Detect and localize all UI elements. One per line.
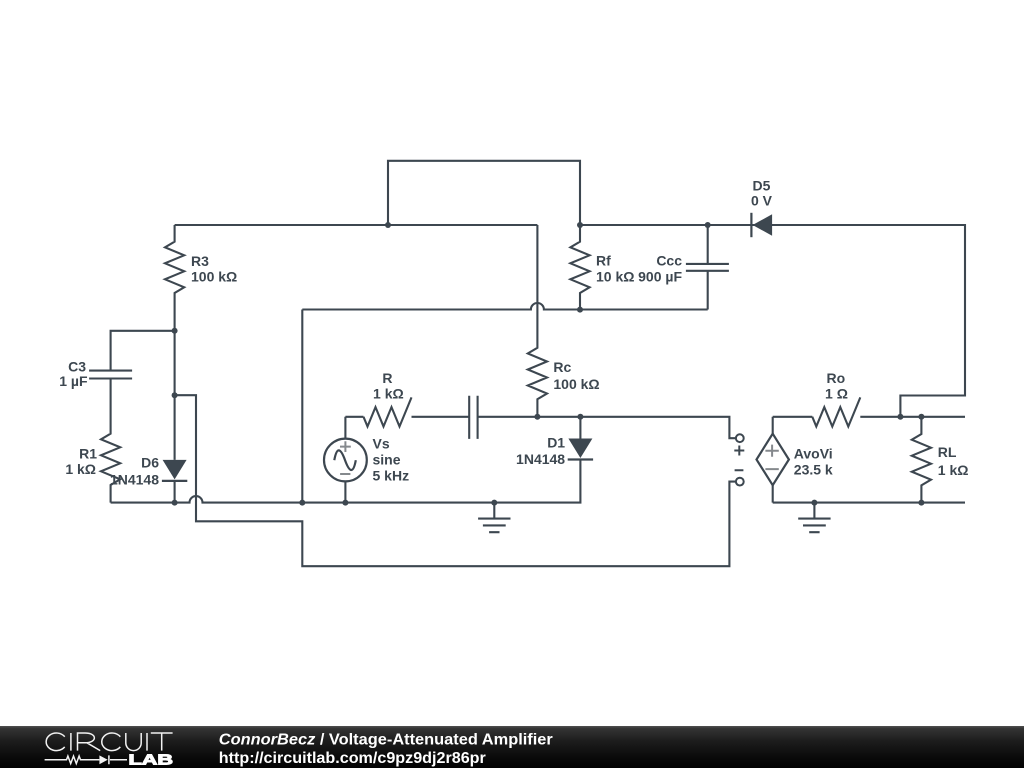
svg-text:Vs: Vs [373, 436, 390, 452]
svg-text:1N4148: 1N4148 [516, 451, 565, 467]
svg-text:1 kΩ: 1 kΩ [938, 462, 969, 478]
svg-text:http://circuitlab.com/c9pz9dj2: http://circuitlab.com/c9pz9dj2r86pr [219, 750, 486, 767]
svg-text:Rf: Rf [596, 253, 611, 269]
svg-text:D5: D5 [753, 178, 771, 194]
svg-text:D1: D1 [547, 434, 565, 450]
svg-text:100 kΩ: 100 kΩ [553, 376, 599, 392]
svg-text:5 kHz: 5 kHz [373, 468, 410, 484]
svg-text:1N4148: 1N4148 [110, 471, 159, 487]
svg-text:900 µF: 900 µF [638, 269, 682, 285]
svg-text:1 kΩ: 1 kΩ [65, 461, 96, 477]
svg-text:RL: RL [938, 444, 957, 460]
svg-text:1 Ω: 1 Ω [825, 386, 848, 402]
svg-text:R1: R1 [79, 446, 97, 462]
svg-text:Ccc: Ccc [656, 253, 682, 269]
svg-text:Rc: Rc [553, 359, 571, 375]
svg-text:D6: D6 [141, 455, 159, 471]
svg-text:ConnorBecz / Voltage-Attenuate: ConnorBecz / Voltage-Attenuated Amplifie… [219, 731, 553, 748]
svg-text:R: R [382, 370, 392, 386]
svg-text:LAB: LAB [129, 752, 174, 768]
svg-text:23.5 k: 23.5 k [794, 462, 833, 478]
svg-text:Ro: Ro [826, 370, 845, 386]
svg-text:R3: R3 [191, 253, 209, 269]
svg-text:sine: sine [373, 452, 401, 468]
svg-text:AvoVi: AvoVi [794, 446, 833, 462]
svg-text:100 kΩ: 100 kΩ [191, 269, 237, 285]
svg-text:10 kΩ: 10 kΩ [596, 269, 634, 285]
svg-text:1 kΩ: 1 kΩ [373, 386, 404, 402]
svg-text:1 µF: 1 µF [59, 373, 88, 389]
svg-text:0 V: 0 V [751, 193, 773, 209]
